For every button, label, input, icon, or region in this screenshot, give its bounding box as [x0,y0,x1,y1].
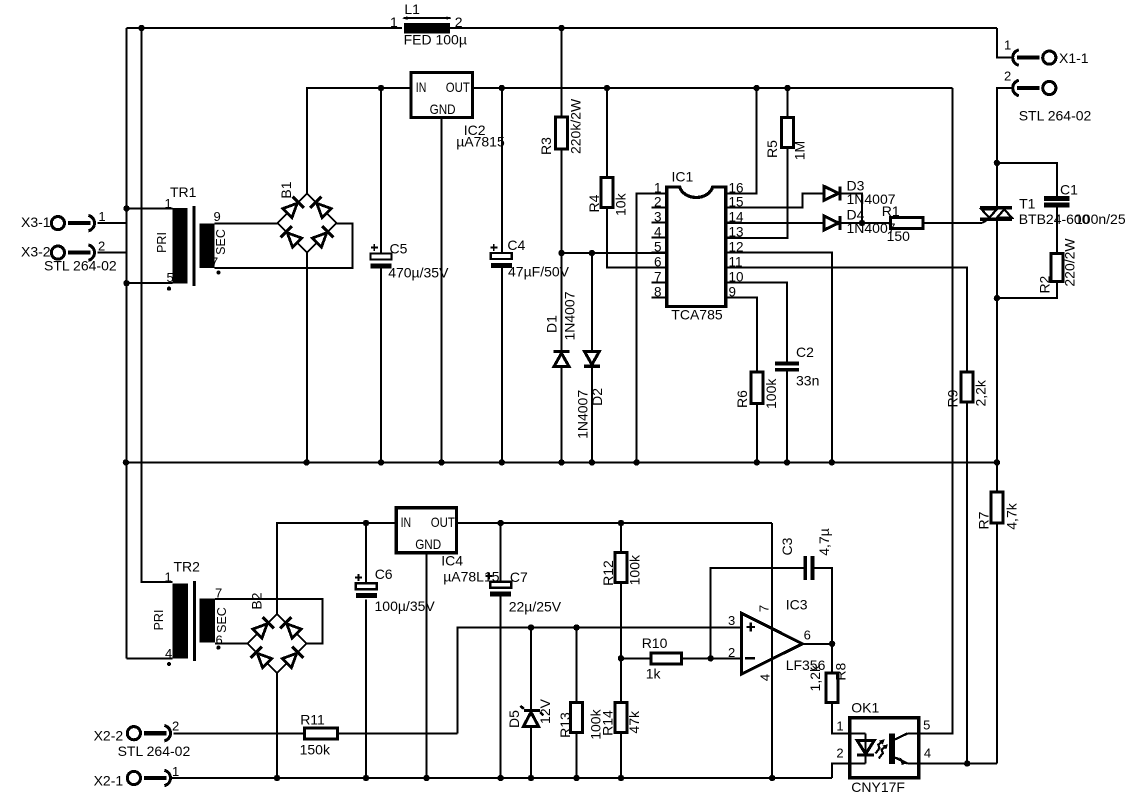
svg-text:R5: R5 [764,140,780,158]
svg-text:4: 4 [654,224,662,239]
svg-text:R6: R6 [734,390,750,408]
svg-text:SEC: SEC [215,607,229,633]
svg-text:2,2k: 2,2k [973,379,989,406]
svg-text:C3: C3 [779,537,795,555]
svg-text:R14: R14 [600,710,616,736]
svg-text:1M: 1M [791,141,807,160]
svg-text:12V: 12V [537,698,553,724]
svg-text:GND: GND [430,101,456,117]
svg-text:47µF/50V: 47µF/50V [508,264,570,280]
svg-text:100k: 100k [626,554,642,585]
svg-text:16: 16 [729,180,744,195]
svg-text:TR2: TR2 [174,559,201,575]
svg-text:33n: 33n [796,373,819,389]
svg-text:1,2k: 1,2k [807,664,823,691]
svg-text:9: 9 [214,209,221,224]
svg-text:10: 10 [729,270,744,285]
svg-text:C4: C4 [507,237,525,253]
svg-text:2: 2 [455,14,463,30]
svg-text:10k: 10k [613,192,629,216]
svg-text:R11: R11 [300,712,325,728]
svg-text:T1: T1 [1019,196,1036,212]
svg-text:IN: IN [401,514,412,530]
svg-text:4: 4 [758,674,773,681]
svg-text:9: 9 [729,285,737,300]
svg-text:B1: B1 [278,181,294,198]
svg-text:IC4: IC4 [441,553,463,569]
svg-text:7: 7 [215,586,222,601]
svg-text:X2-2: X2-2 [94,728,124,744]
svg-text:470µ/35V: 470µ/35V [388,265,449,281]
svg-text:CNY17F: CNY17F [851,779,905,795]
svg-text:150k: 150k [300,742,331,758]
svg-text:220/2W: 220/2W [1062,238,1078,287]
svg-text:2: 2 [654,195,662,210]
svg-text:TR1: TR1 [170,184,197,200]
svg-text:2: 2 [172,719,179,734]
svg-text:STL 264-02: STL 264-02 [1019,108,1092,124]
svg-text:6: 6 [216,633,223,648]
svg-text:1: 1 [98,209,105,224]
svg-text:1: 1 [390,14,398,30]
svg-text:100n/250: 100n/250 [1075,211,1125,227]
svg-text:150: 150 [887,228,911,244]
svg-text:R12: R12 [600,560,616,586]
svg-text:C7: C7 [510,569,528,585]
svg-text:OK1: OK1 [851,700,879,716]
svg-text:22µ/25V: 22µ/25V [509,599,562,615]
svg-text:3: 3 [728,613,735,628]
svg-text:C5: C5 [390,241,408,257]
svg-text:R7: R7 [976,511,992,529]
svg-text:2: 2 [98,239,105,254]
svg-text:SEC: SEC [214,229,228,255]
svg-text:µA7815: µA7815 [456,134,505,150]
svg-text:R1: R1 [882,203,900,219]
svg-text:4: 4 [924,746,931,761]
svg-text:D5: D5 [506,710,522,728]
svg-text:R13: R13 [557,712,573,738]
svg-text:47k: 47k [626,710,642,734]
svg-text:R10: R10 [642,635,668,651]
svg-text:IN: IN [416,79,427,95]
svg-text:R2: R2 [1037,275,1053,293]
svg-text:1: 1 [654,180,662,195]
svg-text:15: 15 [729,195,744,210]
svg-text:1N4007: 1N4007 [562,291,578,340]
svg-text:4,7k: 4,7k [1004,502,1020,529]
svg-text:C6: C6 [375,566,393,582]
svg-text:R4: R4 [586,194,602,212]
svg-text:8: 8 [654,285,662,300]
svg-text:IC3: IC3 [786,597,808,613]
svg-text:4,7µ: 4,7µ [816,528,832,556]
svg-text:7: 7 [757,605,772,612]
svg-text:IC1: IC1 [672,169,694,185]
svg-text:100µ/35V: 100µ/35V [375,598,436,614]
svg-text:PRI: PRI [155,232,169,253]
svg-text:TCA785: TCA785 [671,307,723,323]
svg-text:13: 13 [729,224,744,239]
svg-text:1: 1 [836,719,843,734]
svg-text:5: 5 [654,240,662,255]
svg-text:5: 5 [923,718,930,733]
svg-text:2: 2 [836,746,843,761]
svg-text:X1-1: X1-1 [1059,50,1089,66]
svg-text:D1: D1 [544,315,560,333]
svg-text:7: 7 [654,270,662,285]
svg-text:14: 14 [729,210,745,225]
svg-text:L1: L1 [404,1,420,17]
svg-text:5: 5 [167,270,174,285]
svg-text:FED 100µ: FED 100µ [404,32,467,48]
svg-text:6: 6 [654,255,662,270]
svg-text:D2: D2 [589,388,605,406]
svg-text:2: 2 [1004,69,1011,84]
svg-text:7: 7 [211,255,218,270]
svg-text:PRI: PRI [152,610,166,631]
svg-text:1: 1 [165,196,172,211]
svg-text:X2-1: X2-1 [94,773,124,789]
svg-text:R3: R3 [538,137,554,155]
svg-text:X3-1: X3-1 [21,214,51,230]
svg-text:STL 264-02: STL 264-02 [118,743,191,759]
svg-text:6: 6 [804,628,811,643]
svg-text:1: 1 [1004,38,1011,53]
svg-text:4: 4 [165,646,172,661]
svg-text:µA78L15: µA78L15 [443,569,500,585]
svg-text:1k: 1k [646,666,662,682]
svg-text:R8: R8 [833,663,849,681]
svg-text:GND: GND [415,536,441,552]
svg-text:1: 1 [172,764,179,779]
svg-text:STL 264-02: STL 264-02 [44,258,117,274]
svg-text:12: 12 [729,240,744,255]
svg-text:C1: C1 [1060,182,1078,198]
svg-text:220k/2W: 220k/2W [567,98,583,154]
svg-text:OUT: OUT [446,79,470,95]
svg-text:11: 11 [729,255,743,270]
svg-text:2: 2 [728,645,735,660]
svg-text:OUT: OUT [431,514,455,530]
svg-text:R9: R9 [945,389,961,407]
svg-text:B2: B2 [249,592,265,609]
svg-text:C2: C2 [796,344,814,360]
svg-text:3: 3 [654,210,662,225]
svg-text:100k: 100k [763,378,779,409]
svg-text:1: 1 [165,570,172,585]
